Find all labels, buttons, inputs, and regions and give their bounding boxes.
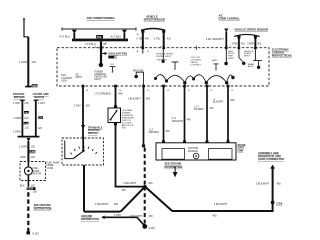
svg-text:120: 120 <box>31 144 36 148</box>
svg-text:SUPPORT: SUPPORT <box>157 60 168 62</box>
svg-text:CONTROL: CONTROL <box>191 64 202 66</box>
svg-text:GROUND: GROUND <box>133 69 144 72</box>
svg-text:MOTOR: MOTOR <box>33 173 42 175</box>
svg-text:MODULE: MODULE <box>188 151 198 153</box>
svg-text:450: 450 <box>230 99 235 102</box>
svg-text:450: 450 <box>122 189 127 192</box>
svg-text:2 RED: 2 RED <box>232 42 239 45</box>
svg-text:1 LT GRN/BLK: 1 LT GRN/BLK <box>94 93 111 96</box>
svg-text:2 YEL: 2 YEL <box>154 38 161 41</box>
svg-text:1 TAN: 1 TAN <box>74 105 81 108</box>
svg-text:ASSY: ASSY <box>61 79 68 82</box>
svg-text:SEDAN: SEDAN <box>34 95 43 99</box>
svg-text:BLK: BLK <box>20 184 25 187</box>
svg-text:VEHICLE SPEED SENSOR: VEHICLE SPEED SENSOR <box>235 28 269 32</box>
svg-text:SPEED SENSOR: SPEED SENSOR <box>144 18 165 22</box>
svg-text:(ALDL) CONNECTOR: (ALDL) CONNECTOR <box>258 157 284 161</box>
svg-text:1 GRY: 1 GRY <box>38 102 46 105</box>
svg-text:C250: C250 <box>276 202 283 205</box>
svg-text:DISTRIBUTION: DISTRIBUTION <box>34 207 52 210</box>
svg-text:450: 450 <box>114 203 119 206</box>
svg-text:PSI): PSI) <box>122 128 127 130</box>
svg-text:INPUT: INPUT <box>244 56 251 58</box>
svg-text:4 LT BLU: 4 LT BLU <box>60 35 71 38</box>
svg-text:CONN: CONN <box>46 168 53 170</box>
svg-text:120: 120 <box>31 184 36 187</box>
svg-text:4 LT BLU: 4 LT BLU <box>111 35 122 38</box>
svg-text:450: 450 <box>277 182 282 185</box>
svg-text:401: 401 <box>167 38 172 41</box>
svg-text:120: 120 <box>38 127 43 130</box>
svg-text:G103: G103 <box>32 232 39 236</box>
svg-text:120: 120 <box>25 127 30 130</box>
svg-text:GRN/WHT: GRN/WHT <box>172 120 184 123</box>
svg-text:139: 139 <box>24 102 29 105</box>
svg-text:2 YEL: 2 YEL <box>136 38 143 41</box>
svg-text:BLU/BLK: BLU/BLK <box>194 108 204 111</box>
svg-text:1 ORN: 1 ORN <box>13 117 21 120</box>
svg-text:DISTRIBUTION: DISTRIBUTION <box>81 218 99 221</box>
svg-text:GRN/BLK: GRN/BLK <box>149 131 160 134</box>
svg-text:120: 120 <box>31 155 36 159</box>
svg-text:LINK: LINK <box>238 149 244 152</box>
svg-text:120: 120 <box>24 117 29 120</box>
svg-text:1 ORN: 1 ORN <box>19 60 27 64</box>
svg-text:448: 448 <box>118 93 123 96</box>
svg-text:450: 450 <box>149 215 154 218</box>
svg-text:WAGON: WAGON <box>14 95 25 99</box>
svg-text:3 BLK/WHT: 3 BLK/WHT <box>214 203 228 206</box>
svg-text:BLK/WHT: BLK/WHT <box>213 101 224 104</box>
svg-text:FAN: FAN <box>61 74 66 77</box>
svg-text:1 ORN: 1 ORN <box>19 144 27 148</box>
svg-text:1 TAN: 1 TAN <box>114 214 121 217</box>
svg-text:INPUT: INPUT <box>75 77 82 79</box>
svg-text:2 BRN: 2 BRN <box>247 42 254 45</box>
svg-text:1 ORN: 1 ORN <box>13 130 21 133</box>
svg-text:1 BLK/WHT: 1 BLK/WHT <box>123 182 137 185</box>
svg-text:A/C: A/C <box>75 74 79 77</box>
svg-text:420: 420 <box>86 105 91 108</box>
svg-text:S204: S204 <box>32 84 39 88</box>
svg-text:450: 450 <box>146 97 151 100</box>
svg-text:446: 446 <box>209 107 214 110</box>
svg-text:C203: C203 <box>30 151 36 154</box>
svg-text:120: 120 <box>31 60 36 64</box>
svg-text:449: 449 <box>187 119 192 122</box>
svg-text:1 GRY: 1 GRY <box>13 102 21 105</box>
svg-text:AXLE: AXLE <box>248 65 254 68</box>
svg-text:1 BLK/WHT: 1 BLK/WHT <box>128 97 142 100</box>
svg-text:POWER INPUT: POWER INPUT <box>156 56 172 58</box>
svg-text:AIR CONDITIONING: AIR CONDITIONING <box>87 16 116 20</box>
svg-text:1 BLK/WHT: 1 BLK/WHT <box>95 203 109 206</box>
svg-text:150: 150 <box>33 190 38 193</box>
svg-text:402: 402 <box>257 42 262 45</box>
svg-text:INPUT: INPUT <box>228 58 235 60</box>
svg-text:ORN: ORN <box>20 155 26 159</box>
svg-text:448: 448 <box>166 130 171 133</box>
svg-text:DISTRIBUTION: DISTRIBUTION <box>165 166 183 169</box>
svg-text:3 BLK/WHT: 3 BLK/WHT <box>256 182 270 185</box>
svg-text:MODULE (ECM): MODULE (ECM) <box>272 54 292 58</box>
svg-text:502: 502 <box>97 35 102 39</box>
svg-text:400: 400 <box>145 38 150 41</box>
svg-text:BATT: BATT <box>212 59 218 62</box>
svg-text:401: 401 <box>241 42 246 45</box>
svg-text:2 DK GRN/WHT: 2 DK GRN/WHT <box>206 38 225 41</box>
svg-text:G104: G104 <box>149 227 156 230</box>
svg-text:CABLE: CABLE <box>108 54 117 58</box>
svg-text:SWITCH: SWITCH <box>88 132 98 135</box>
svg-text:450: 450 <box>212 215 217 218</box>
svg-text:450: 450 <box>148 182 153 185</box>
svg-text:INPUT: INPUT <box>94 79 101 81</box>
svg-text:1 BLK/WHT: 1 BLK/WHT <box>129 215 143 218</box>
svg-text:COMP CONTROL: COMP CONTROL <box>219 16 241 20</box>
